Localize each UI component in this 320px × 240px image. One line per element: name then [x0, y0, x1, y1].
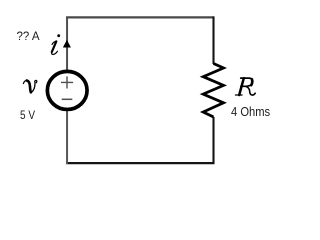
label i (math italic)	[52, 34, 60, 54]
wire bottom	[66, 162, 214, 164]
wire left upper	[66, 17, 68, 71]
wire top	[66, 16, 214, 18]
current arrowhead	[63, 40, 71, 48]
label 4 Ohms	[231, 104, 270, 119]
wire right lower	[212, 117, 214, 164]
voltage source V1 circle	[47, 71, 87, 109]
minus sign	[62, 98, 73, 100]
label R (math italic)	[235, 78, 255, 95]
label 5 V	[20, 108, 35, 122]
resistor R zigzag	[203, 64, 223, 118]
wire right upper	[212, 17, 214, 65]
wire left lower	[66, 111, 68, 165]
label v (math italic)	[23, 80, 36, 92]
plus sign	[61, 76, 73, 88]
label ?? A	[17, 31, 40, 43]
